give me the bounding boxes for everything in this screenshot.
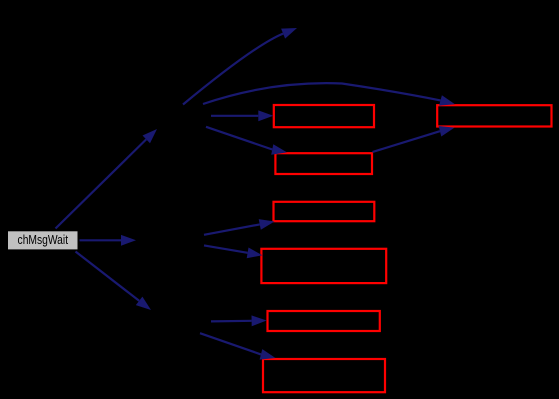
- edge B2 to far-right box BR (arrow up-right): [373, 126, 455, 152]
- edge chMsgWait to node N3 (arrow down-right): [76, 252, 152, 311]
- edge N2 to box B4 (arrow right, slightly down): [204, 245, 262, 258]
- edge chMsgWait to node N1 (arrow up-right): [56, 129, 158, 229]
- edge chMsgWait to node N2 (horizontal arrow): [80, 235, 137, 246]
- edge N1 to box B2 (arrow down-right): [206, 127, 287, 155]
- edge N1 to far-right box BR (long arc): [203, 83, 455, 105]
- node box B1 (callee, truncated): [274, 105, 374, 127]
- node box B3 (callee, truncated): [274, 202, 375, 221]
- edge N2 to box B3 (arrow right, slightly up): [204, 219, 275, 235]
- node box B2 (callee, truncated): [275, 153, 372, 174]
- node box B5 (callee, truncated): [268, 311, 380, 331]
- node box B4 (callee, truncated, two-line): [261, 249, 386, 283]
- node chMsgWait (current function, grey): [7, 230, 79, 250]
- edge N3 to box B5 (horizontal arrow): [211, 315, 267, 326]
- node box BR far-right (callee, truncated): [437, 105, 551, 126]
- edge N1 to box B1 (horizontal arrow): [211, 110, 273, 121]
- node box B6 (callee, truncated, two-line): [263, 359, 385, 392]
- edge N1 to top node (curved arrow up-right): [183, 28, 297, 105]
- svg-text:chMsgWait: chMsgWait: [18, 233, 69, 247]
- edge N3 to box B6 (arrow down-right): [200, 333, 276, 359]
